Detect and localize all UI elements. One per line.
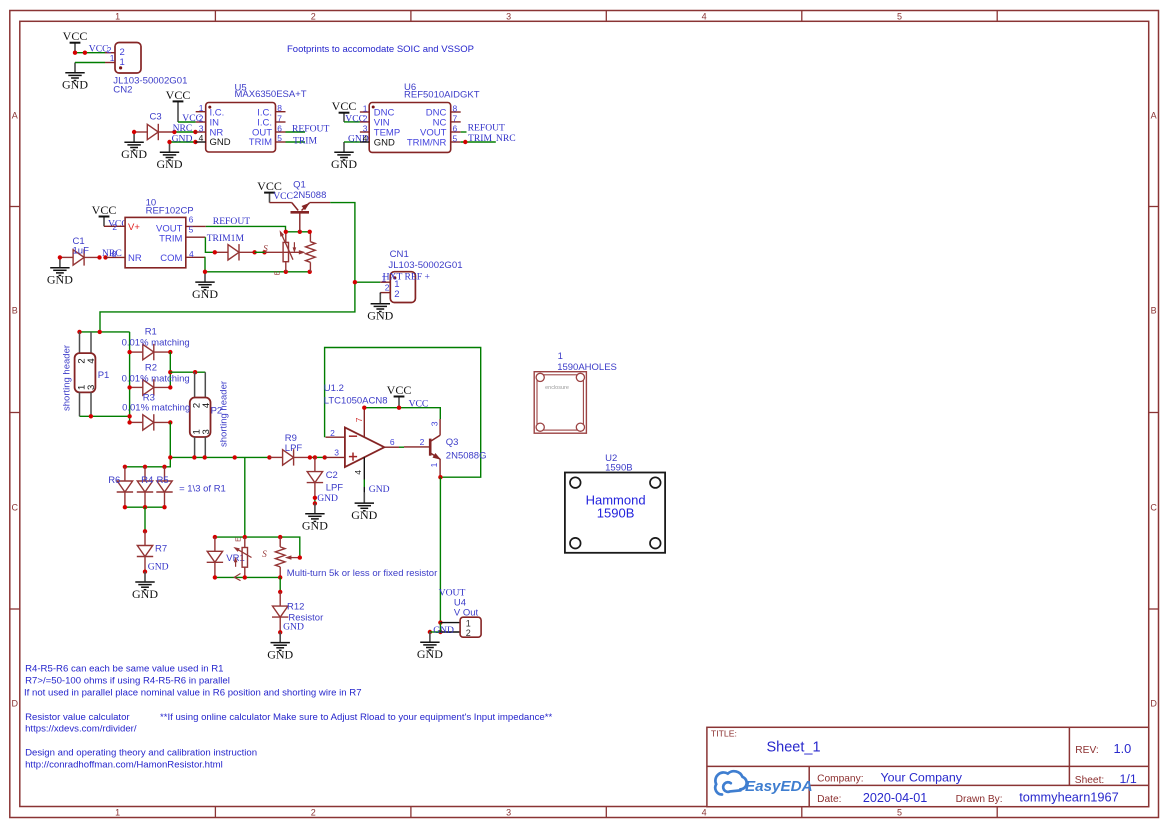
svg-text:GND: GND (62, 78, 88, 92)
power flag VCC (CN2) (63, 29, 88, 53)
wire to CN1 pin1 (355, 281, 380, 283)
svg-text:6: 6 (453, 124, 458, 134)
ground (CN2) (62, 63, 88, 92)
note if not used (24, 688, 362, 699)
wire VCC rail op-amp (364, 408, 440, 419)
pot wiper arrow (285, 555, 300, 559)
note R7 (25, 676, 230, 687)
svg-text:U1.2: U1.2 (324, 383, 344, 394)
wire COM pin4 to gnd rail (204, 257, 206, 272)
svg-text:GND: GND (367, 309, 393, 323)
svg-text:C3: C3 (150, 112, 162, 123)
ground (REF102 COM) (192, 272, 218, 301)
net label VCC (op-amp) (409, 399, 429, 410)
svg-text:TITLE:: TITLE: (711, 728, 737, 738)
junction R12 bottom (278, 630, 282, 634)
wire U4 pin1-pin2 link (439, 623, 441, 632)
svg-text:1: 1 (558, 351, 563, 362)
wire REFOUT from VOUT pin6 (206, 226, 286, 231)
wire P1 top rail (80, 331, 130, 333)
svg-text:REV:: REV: (1075, 745, 1098, 756)
note R4-R5-R6 (25, 663, 223, 674)
net label VCC (REF102) (108, 218, 128, 229)
ground (C2) (302, 503, 328, 532)
wire R1-R2 right vertical (169, 352, 171, 387)
svg-text:GND: GND (267, 648, 293, 662)
wire op-amp pin4 gnd bit (363, 480, 365, 493)
svg-text:GND: GND (433, 625, 454, 636)
svg-text:Resistor value calculator: Resistor value calculator (25, 712, 130, 723)
svg-text:https://xdevs.com/rdivider/: https://xdevs.com/rdivider/ (25, 724, 137, 735)
junction R7 bottom (143, 570, 147, 574)
svg-text:GND: GND (121, 147, 147, 161)
svg-text:GND: GND (331, 157, 357, 171)
wire C3 to U5 pin3 (NRC) (174, 131, 195, 133)
svg-text:VCC: VCC (387, 383, 412, 397)
capacitor C1 1uF (60, 249, 100, 265)
svg-text:GND: GND (317, 493, 338, 504)
svg-text:R12: R12 (287, 601, 304, 612)
svg-text:4: 4 (353, 470, 363, 475)
svg-text:shorting header: shorting header (219, 381, 230, 447)
wire VCC to U6 pin2 (344, 121, 360, 123)
svg-text:3: 3 (86, 385, 97, 390)
svg-text:R5: R5 (157, 475, 169, 486)
junctions R6R4R5 top (123, 465, 167, 469)
wire gnd to U4 pin2 (430, 631, 441, 633)
svg-text:TRIM: TRIM (468, 133, 492, 144)
pin mark E (trimmer) (275, 270, 282, 275)
wire VCC to CN2 pin 2 (75, 52, 105, 54)
resistor R12 (272, 592, 288, 632)
label VR1 (226, 553, 244, 564)
svg-text:6: 6 (277, 123, 282, 133)
junctions R2 (127, 370, 172, 390)
net label TRIM (U5) (293, 136, 317, 147)
svg-text:TRIM/NR: TRIM/NR (407, 138, 447, 149)
junctions NRC wire (132, 130, 198, 134)
net label GND (op-amp pin4) (369, 484, 390, 495)
resistor R5 (156, 467, 172, 507)
enclosure U2 Hammond 1590B (565, 473, 665, 553)
junctions base rail (284, 230, 312, 234)
diode TRIM1M trim network (215, 244, 255, 260)
svg-text:C2: C2 (326, 470, 338, 481)
svg-text:REFOUT: REFOUT (213, 216, 250, 227)
svg-text:2: 2 (363, 114, 368, 124)
svg-text:2: 2 (394, 289, 399, 300)
wire GND to U5 pin4 (170, 141, 196, 143)
svg-text:7: 7 (277, 113, 282, 123)
junctions trim wiper net (213, 250, 267, 254)
svg-text:E: E (275, 270, 282, 275)
svg-text:1: 1 (115, 11, 120, 21)
svg-text:1590B: 1590B (605, 462, 632, 473)
net label HXT REF + (383, 271, 430, 282)
enclosure holes 1590AHOLES (534, 372, 586, 434)
resistor R6 (117, 467, 133, 507)
svg-text:R4: R4 (141, 475, 153, 486)
ground (U4) (417, 632, 443, 661)
wire VCC to U5 pin2 (178, 121, 196, 123)
label C3 (150, 112, 162, 123)
svg-text:EasyEDA: EasyEDA (745, 778, 813, 795)
svg-text:GND: GND (374, 138, 395, 149)
resistor R3 0.01% matching (130, 414, 170, 430)
wire U5 pin6 REFOUT stub (286, 131, 306, 133)
resistor R1 0.01% matching (130, 344, 170, 360)
svg-text:GND: GND (192, 287, 218, 301)
wire P1 bottom rail (80, 415, 130, 417)
svg-text:Company:: Company: (817, 773, 863, 784)
trimmer VR (rect style, REF102 trim) (278, 229, 296, 271)
svg-text:A: A (12, 110, 18, 120)
svg-text:6: 6 (390, 437, 395, 447)
gnd rail under trim network (205, 271, 310, 273)
svg-text:Design and operating theory an: Design and operating theory and calibrat… (25, 748, 257, 759)
svg-text:R4-R5-R6 can each be same valu: R4-R5-R6 can each be same value used in … (25, 663, 223, 674)
net label VCC (U6) (345, 114, 365, 125)
junction pot wiper (298, 555, 302, 559)
svg-text:R1: R1 (145, 326, 157, 337)
wire C2 to gnd (314, 498, 316, 504)
connector CN2 JL103-50002G01 (105, 43, 187, 96)
net label GND (R7) (148, 561, 169, 572)
svg-text:2020-04-01: 2020-04-01 (863, 791, 927, 805)
svg-text:4: 4 (189, 249, 194, 259)
net label REFOUT (U5) (292, 124, 329, 135)
diode VR1 (207, 537, 223, 577)
label shorting header (P1) (62, 345, 73, 411)
svg-text:0.01% matching: 0.01% matching (122, 403, 190, 414)
wire branch to VR1 net (244, 457, 246, 537)
title block (707, 727, 1149, 806)
svg-text:Drawn By:: Drawn By: (956, 794, 1003, 805)
svg-text:Sheet:: Sheet: (1075, 775, 1104, 786)
svg-text:A: A (1151, 110, 1157, 120)
resistor R4 (137, 467, 153, 507)
wire to P2 top (170, 371, 205, 373)
wire TRIM pin5 to trim net (205, 237, 214, 252)
transistor Q3 2N5088G (404, 419, 442, 477)
svg-text:1590AHOLES: 1590AHOLES (557, 362, 617, 373)
junctions C1 wire (58, 255, 108, 259)
svg-text:1: 1 (110, 53, 115, 63)
svg-text:S: S (262, 549, 267, 559)
net label GND (U6) (348, 134, 369, 145)
ground (R7) (132, 572, 158, 601)
svg-text:2: 2 (311, 11, 316, 21)
junction Q3 emitter (438, 475, 442, 479)
svg-text:D: D (1150, 698, 1157, 708)
svg-text:JL103-50002G01: JL103-50002G01 (388, 260, 462, 271)
svg-text:NRC: NRC (173, 123, 193, 134)
svg-text:GND: GND (417, 647, 443, 661)
wire left vertical rail (129, 332, 131, 423)
svg-text:8: 8 (277, 103, 282, 113)
svg-text:REFOUT: REFOUT (468, 123, 505, 134)
junction R12 top (278, 590, 282, 594)
svg-text:3: 3 (199, 123, 204, 133)
label R5 (157, 475, 169, 486)
wire pot to R12 (279, 577, 281, 592)
svg-text:3: 3 (429, 421, 439, 426)
svg-text:GND: GND (172, 134, 193, 145)
wiper arrow into potentiometer (265, 250, 306, 254)
svg-text:R2: R2 (145, 363, 157, 374)
svg-text:REF102CP: REF102CP (146, 205, 194, 216)
net label VCC (U5) (182, 113, 202, 124)
wire op-amp out to Q3 base (399, 446, 404, 448)
svg-text:= 1\3 of R1: = 1\3 of R1 (179, 483, 226, 494)
svg-text:tommyhearn1967: tommyhearn1967 (1019, 790, 1119, 805)
ground (R12) (267, 632, 293, 661)
svg-text:VCC: VCC (92, 203, 117, 217)
svg-text:CN1: CN1 (390, 249, 409, 260)
svg-text:3: 3 (201, 429, 212, 434)
trimmer (rect style, VR1 net) (232, 537, 251, 577)
ground (U5 pin4) (157, 142, 183, 171)
svg-text:TRIM: TRIM (249, 137, 272, 148)
junction U6 pin5 (463, 140, 467, 144)
label C2 (326, 470, 344, 494)
svg-text:4: 4 (363, 133, 368, 143)
svg-text:If not used in parallel place: If not used in parallel place nominal va… (24, 688, 362, 699)
label multi-turn (287, 568, 437, 579)
svg-text:1/1: 1/1 (1120, 772, 1137, 786)
transistor Q1 2N5088 (270, 201, 331, 232)
resistor R9 LPF (269, 449, 309, 465)
wire U6 pin6 REFOUT stub (461, 131, 467, 133)
potentiometer multi-turn (zigzag) (275, 537, 285, 577)
pin label S (trimmer wiper) (263, 244, 268, 254)
svg-text:GND: GND (210, 137, 231, 148)
note conradhoffman link (25, 760, 223, 771)
svg-text:TRIM: TRIM (159, 233, 182, 244)
svg-text:3: 3 (506, 807, 511, 817)
wire R6R4R5 bottom rail (125, 506, 165, 508)
svg-text:7: 7 (453, 114, 458, 124)
power flag VCC (U5) (166, 88, 191, 122)
svg-text:1: 1 (429, 462, 439, 467)
svg-text:5: 5 (897, 11, 902, 21)
svg-text:5: 5 (189, 224, 194, 234)
label REF102CP (146, 197, 194, 216)
svg-text:HXT REF +: HXT REF + (383, 271, 430, 282)
svg-text:COM: COM (160, 253, 182, 264)
label R2 (122, 363, 190, 385)
svg-text:1590B: 1590B (597, 506, 635, 521)
svg-text:TRIM: TRIM (293, 136, 317, 147)
wire GND to CN2 pin 1 (75, 62, 105, 64)
wire VR1 bottom rail (215, 576, 280, 578)
svg-text:C: C (1150, 502, 1157, 512)
svg-text:4: 4 (702, 807, 707, 817)
connector CN1 JL103-50002G01 (380, 272, 415, 303)
svg-text:VCC: VCC (332, 99, 357, 113)
svg-text:REF5010AIDGKT: REF5010AIDGKT (404, 89, 480, 100)
wire Q1 base rail (286, 231, 310, 233)
svg-text:B: B (12, 305, 18, 315)
svg-text:5: 5 (897, 807, 902, 817)
svg-text:0.01% matching: 0.01% matching (122, 374, 190, 385)
junctions C2 gnd (313, 496, 317, 506)
svg-text:GND: GND (148, 561, 169, 572)
svg-text:GND: GND (47, 273, 73, 287)
net label NRC (U5) (173, 123, 193, 134)
label R1 (122, 326, 190, 348)
svg-text:8: 8 (453, 103, 458, 113)
svg-text:R7: R7 (155, 543, 167, 554)
svg-text:1uF: 1uF (73, 245, 90, 256)
label P1 (98, 370, 110, 381)
svg-text:1.0: 1.0 (1114, 741, 1132, 756)
svg-text:enclosure: enclosure (545, 385, 569, 391)
svg-text:2N5088G: 2N5088G (446, 451, 487, 462)
junctions R3 (127, 414, 172, 425)
svg-text:NRC: NRC (496, 133, 516, 144)
svg-text:REFOUT: REFOUT (292, 124, 329, 135)
svg-text:3: 3 (334, 448, 339, 458)
junctions gnd rail (203, 270, 312, 274)
svg-text:Your Company: Your Company (881, 770, 963, 784)
svg-text:Footprints to accomodate SOIC: Footprints to accomodate SOIC and VSSOP (287, 44, 474, 55)
net label VOUT (439, 588, 466, 599)
label Q1 (293, 179, 326, 201)
junctions R1 (127, 350, 172, 354)
svg-text:VCC: VCC (63, 29, 88, 43)
header P1 (shorting header) (75, 332, 97, 416)
note design theory (25, 748, 257, 759)
power flag VCC (Q1) (257, 179, 282, 203)
label U4 (454, 597, 479, 618)
label 1590AHOLES (557, 351, 617, 373)
net label VCC (Q1) (273, 191, 293, 202)
svg-text:Sheet_1: Sheet_1 (767, 740, 821, 756)
label U5 (235, 82, 307, 100)
label R7 (155, 543, 167, 554)
net label NRC (REF102) (102, 248, 122, 259)
svg-text:CN2: CN2 (113, 85, 132, 96)
svg-text:GND: GND (302, 519, 328, 533)
net label TRIM (U6) (468, 133, 492, 144)
resistor R7 (137, 531, 153, 571)
power flag VCC (REF102) (92, 203, 117, 226)
svg-text:R6: R6 (108, 475, 120, 486)
wire R4 to R7 (144, 507, 146, 531)
ground (C3 left) (121, 132, 147, 161)
junction CN1 net (353, 280, 357, 284)
svg-text:4: 4 (702, 11, 707, 21)
svg-text:LPF: LPF (285, 443, 303, 454)
svg-text:**If using online calculator M: **If using online calculator Make sure t… (160, 712, 552, 723)
svg-text:B: B (1151, 305, 1157, 315)
svg-text:4: 4 (199, 133, 204, 143)
capacitor C2 LPF (307, 457, 323, 497)
label C1 (73, 236, 90, 256)
ground (U6 pin4) (331, 142, 357, 171)
svg-text:VCC: VCC (273, 191, 293, 202)
net label REFOUT (REF102) (213, 216, 250, 227)
svg-text:0.01% matching: 0.01% matching (122, 337, 190, 348)
junctions VR1 top (213, 535, 283, 539)
wire Q3 emitter to VOUT (439, 477, 441, 622)
label R4 (141, 475, 153, 486)
svg-text:2: 2 (466, 628, 471, 638)
label R12 (287, 601, 323, 623)
svg-text:Q1: Q1 (293, 179, 306, 190)
svg-text:2: 2 (311, 807, 316, 817)
svg-text:Q3: Q3 (446, 437, 459, 448)
net label GND (U5) (172, 134, 193, 145)
label P2 (211, 405, 223, 416)
junctions op-amp input (308, 455, 327, 459)
junctions P1 top (77, 330, 102, 334)
pin label S (pot) (262, 549, 267, 559)
junction P2 pin2 (193, 370, 197, 374)
svg-text:TRIM1M: TRIM1M (207, 233, 245, 244)
wire between wiper dots (255, 251, 265, 253)
svg-text:5: 5 (277, 133, 282, 143)
junctions VR1 bottom (213, 575, 283, 579)
wire Q1 emitter to CN1 net (100, 203, 355, 332)
svg-text:2: 2 (330, 428, 335, 438)
wire VR1 top rail (215, 537, 300, 558)
svg-text:7: 7 (354, 417, 364, 422)
svg-text:GND: GND (132, 587, 158, 601)
net label GND (U4) (433, 625, 454, 636)
svg-text:GND: GND (283, 621, 304, 632)
net label VCC (89, 43, 109, 54)
svg-text:http://conradhoffman.com/Hamon: http://conradhoffman.com/HamonResistor.h… (25, 760, 223, 771)
svg-text:LTC1050ACN8: LTC1050ACN8 (324, 396, 388, 407)
svg-text:1: 1 (115, 807, 120, 817)
ground (op-amp pin4) (351, 493, 377, 522)
svg-text:D: D (12, 698, 19, 708)
svg-text:Date:: Date: (817, 794, 841, 805)
wire R3 to mid rail (125, 422, 170, 466)
net label TRIM1M (207, 233, 245, 244)
wire R9 to op-amp pin3 (310, 456, 325, 458)
wire U5 pin5 TRIM stub (286, 141, 306, 143)
label Q3 (446, 437, 487, 462)
svg-text:Multi-turn 5k or less or fixed: Multi-turn 5k or less or fixed resistor (287, 568, 437, 579)
label R6 (108, 475, 120, 486)
svg-text:R7>/=50-100 ohms if using R4-R: R7>/=50-100 ohms if using R4-R5-R6 in pa… (25, 676, 230, 687)
label shorting header (P2) (219, 381, 230, 447)
svg-text:1: 1 (466, 618, 471, 628)
svg-text:GND: GND (157, 157, 183, 171)
svg-text:NR: NR (128, 253, 142, 264)
junctions VCC rail (362, 406, 401, 410)
svg-text:GND: GND (369, 484, 390, 495)
svg-text:V Out: V Out (454, 607, 479, 618)
ground (CN1 pin2) (367, 293, 393, 323)
wire mid horizontal rail (170, 456, 269, 458)
connector U4 V Out (440, 617, 481, 638)
junctions U5 gnd wire (167, 140, 197, 144)
capacitor C3 (134, 124, 174, 140)
wire U6 pin5 TRIM (461, 141, 496, 143)
svg-text:2: 2 (199, 113, 204, 123)
junction R7 top (143, 529, 147, 533)
note: footprints (287, 44, 474, 55)
net label NRC (U6) (496, 133, 516, 144)
svg-text:3: 3 (506, 11, 511, 21)
label CN1 (388, 249, 462, 271)
label R3 (122, 392, 190, 413)
ground (C1) (47, 257, 73, 286)
